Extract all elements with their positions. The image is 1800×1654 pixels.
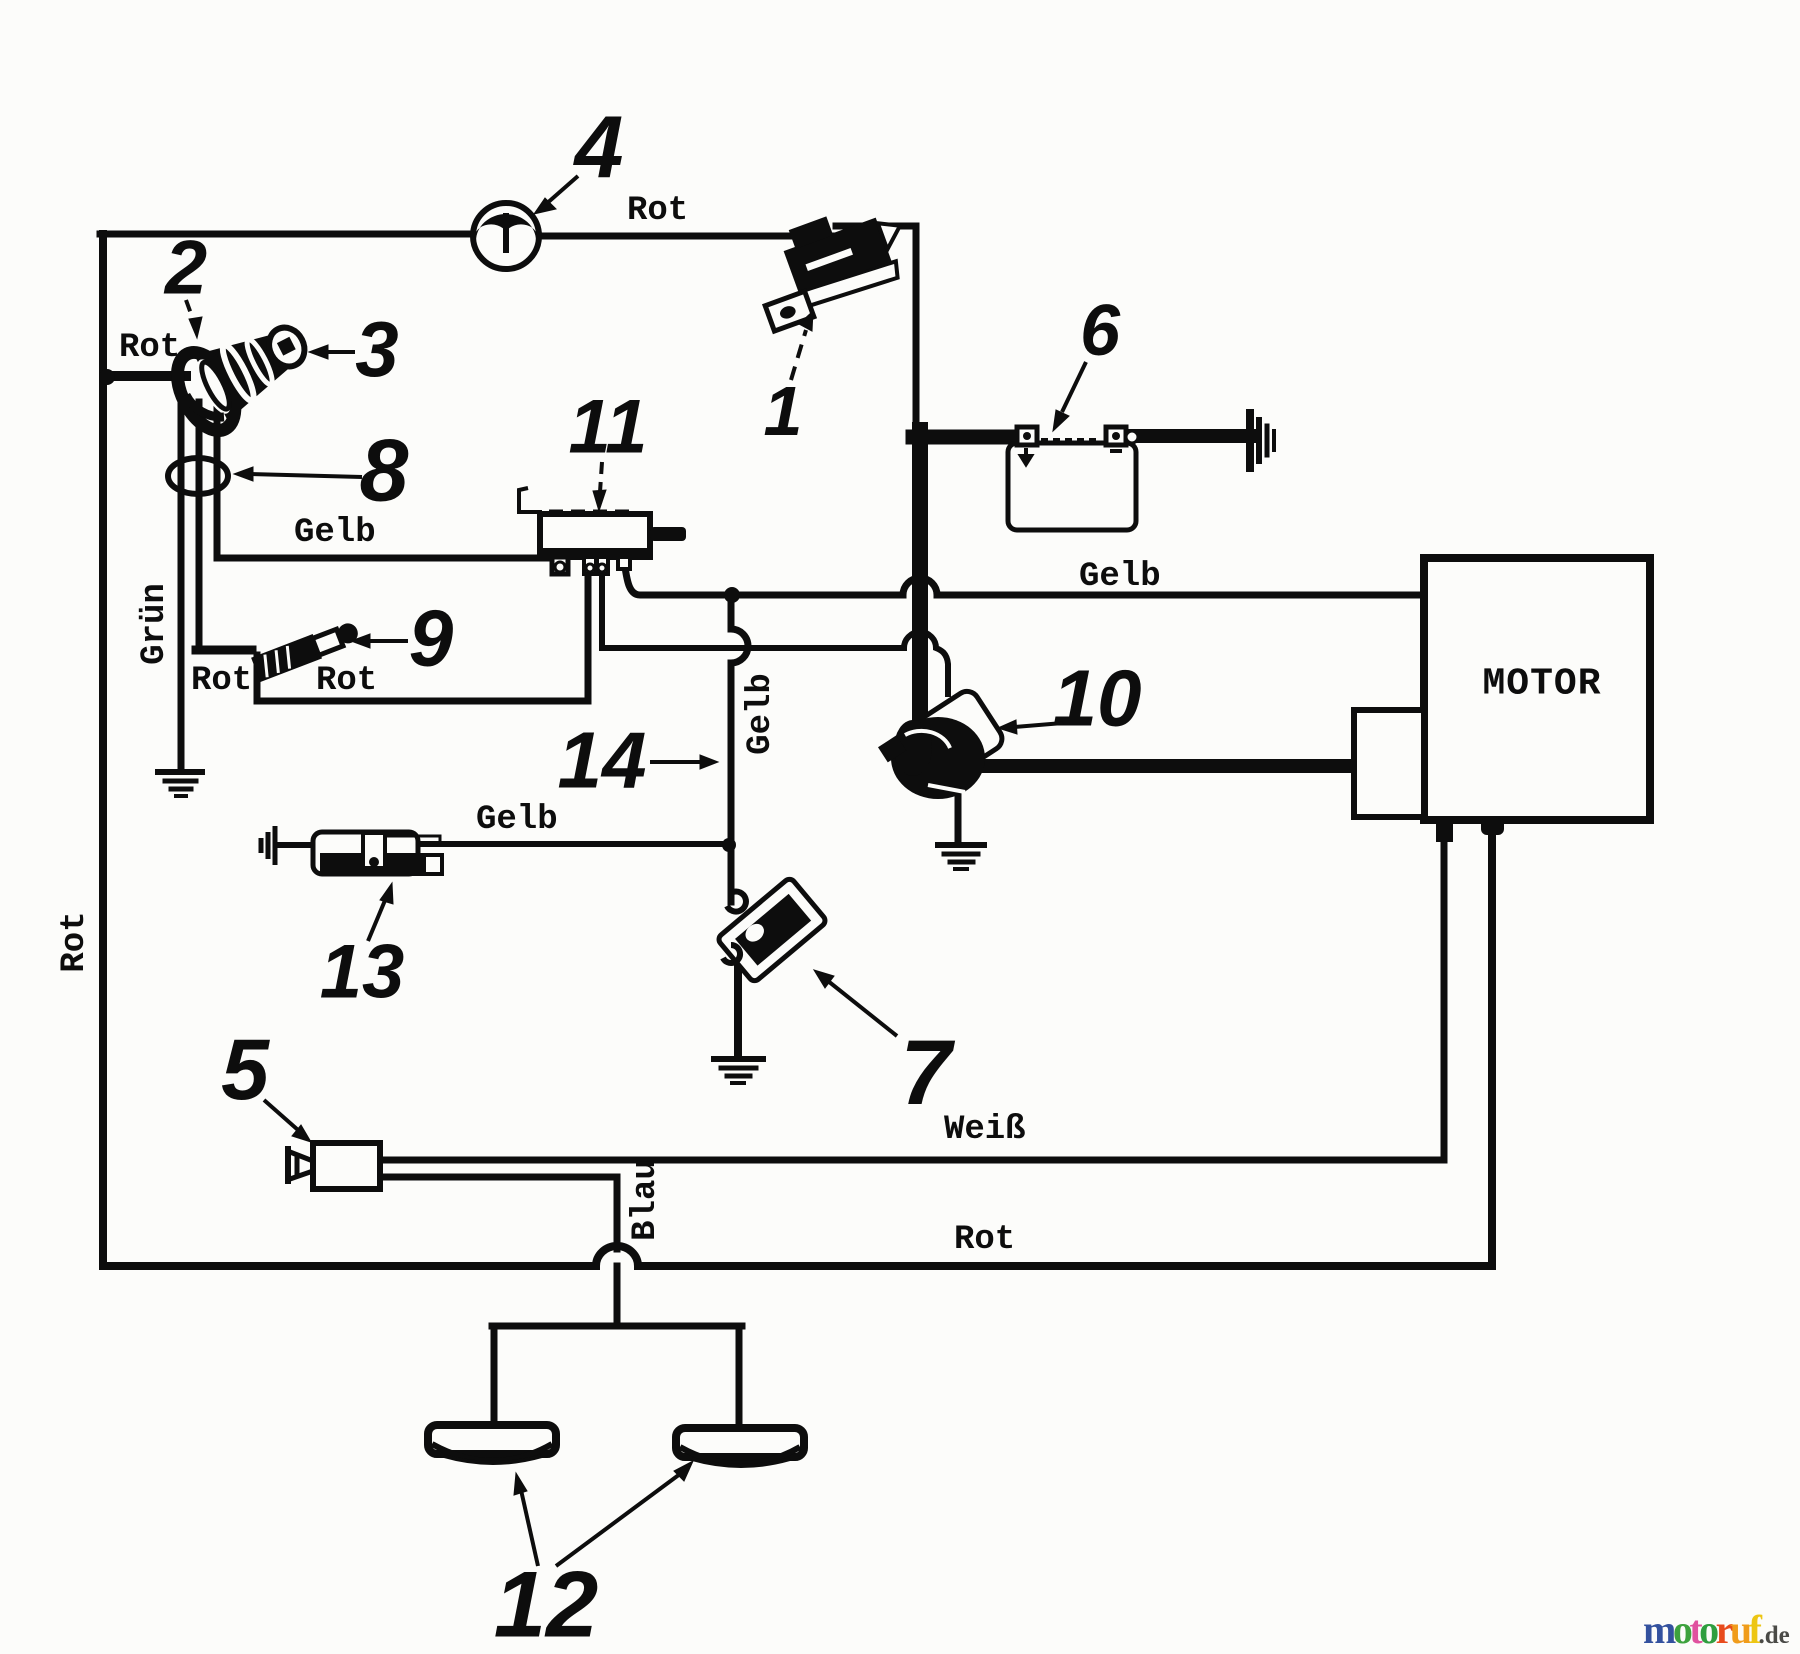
svg-text:Gelb: Gelb [476, 801, 558, 839]
svg-text:Blau: Blau [627, 1159, 665, 1241]
svg-text:Gelb: Gelb [294, 514, 376, 552]
svg-text:Rot: Rot [191, 662, 252, 700]
svg-text:10: 10 [1053, 654, 1142, 743]
svg-text:4: 4 [573, 98, 624, 197]
svg-text:6: 6 [1080, 291, 1121, 371]
svg-text:Rot: Rot [56, 911, 94, 972]
svg-text:Weiß: Weiß [944, 1111, 1026, 1149]
svg-text:Gelb: Gelb [1079, 558, 1161, 596]
svg-text:5: 5 [221, 1022, 270, 1118]
svg-text:Rot: Rot [119, 329, 180, 367]
svg-text:14: 14 [558, 716, 647, 805]
svg-text:Rot: Rot [954, 1221, 1015, 1259]
svg-text:13: 13 [320, 930, 405, 1015]
svg-text:Rot: Rot [316, 662, 377, 700]
svg-text:Rot: Rot [627, 192, 688, 230]
svg-text:Grün: Grün [136, 583, 174, 665]
svg-text:2: 2 [163, 226, 207, 311]
svg-text:8: 8 [360, 421, 409, 520]
svg-text:11: 11 [569, 385, 648, 470]
svg-text:MOTOR: MOTOR [1482, 663, 1601, 706]
svg-text:9: 9 [409, 594, 454, 683]
svg-text:1: 1 [764, 372, 803, 450]
svg-text:12: 12 [494, 1552, 599, 1654]
svg-text:Gelb: Gelb [742, 673, 780, 755]
svg-text:3: 3 [355, 305, 398, 393]
svg-text:7: 7 [900, 1022, 955, 1124]
